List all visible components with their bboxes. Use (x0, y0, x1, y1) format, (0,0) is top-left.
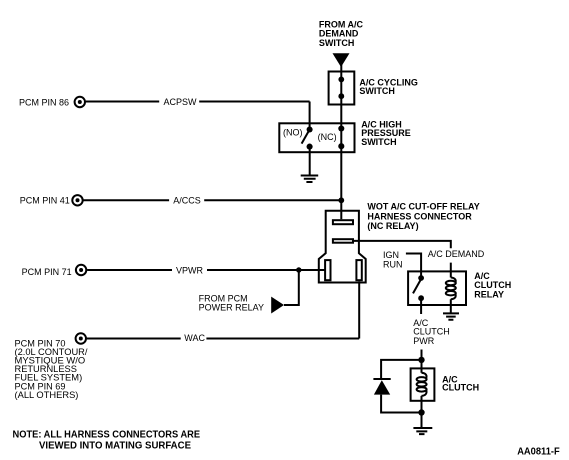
svg-text:NOTE: ALL HARNESS CONNECTORS A: NOTE: ALL HARNESS CONNECTORS ARE (13, 430, 201, 441)
svg-text:A/CCS: A/CCS (173, 195, 201, 205)
svg-text:(NC RELAY): (NC RELAY) (367, 221, 418, 231)
svg-text:(ALL OTHERS): (ALL OTHERS) (15, 390, 79, 400)
svg-text:VIEWED INTO MATING SURFACE: VIEWED INTO MATING SURFACE (39, 440, 191, 451)
svg-text:WAC: WAC (184, 333, 205, 343)
svg-text:AA0811-F: AA0811-F (517, 446, 560, 457)
svg-text:(NO): (NO) (283, 127, 303, 137)
svg-text:PCM PIN 86: PCM PIN 86 (19, 97, 69, 107)
svg-text:(NC): (NC) (318, 132, 337, 142)
svg-text:SWITCH: SWITCH (359, 86, 395, 96)
svg-text:PWR: PWR (413, 336, 434, 346)
svg-text:VPWR: VPWR (176, 265, 204, 275)
svg-text:RUN: RUN (383, 260, 403, 270)
svg-text:A/C DEMAND: A/C DEMAND (428, 249, 485, 259)
svg-text:RELAY: RELAY (474, 289, 504, 299)
svg-text:CLUTCH: CLUTCH (442, 382, 479, 392)
svg-text:SWITCH: SWITCH (319, 38, 355, 48)
svg-text:HARNESS CONNECTOR: HARNESS CONNECTOR (367, 211, 472, 221)
svg-text:PCM PIN 71: PCM PIN 71 (22, 267, 72, 277)
svg-text:IGN: IGN (383, 250, 399, 260)
svg-text:ACPSW: ACPSW (164, 97, 198, 107)
svg-text:DEMAND: DEMAND (319, 29, 359, 39)
svg-text:PCM PIN 41: PCM PIN 41 (20, 196, 70, 206)
svg-text:POWER RELAY: POWER RELAY (199, 303, 264, 313)
svg-text:WOT A/C CUT-OFF RELAY: WOT A/C CUT-OFF RELAY (367, 202, 479, 212)
svg-text:SWITCH: SWITCH (361, 137, 397, 147)
